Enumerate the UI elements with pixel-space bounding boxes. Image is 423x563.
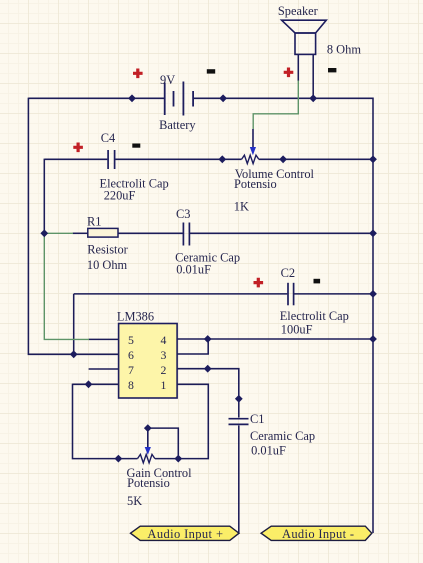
junction pin4 pin3 (204, 335, 212, 343)
svg-text:100uF: 100uF (281, 323, 313, 337)
svg-text:220uF: 220uF (104, 189, 136, 203)
junction volume row right rail (369, 155, 377, 163)
svg-text:3: 3 (161, 348, 167, 362)
wire battery right to corner (194, 97, 373, 99)
svg-text:Potensio: Potensio (127, 476, 170, 490)
polarity plus speaker (284, 68, 294, 78)
svg-text:1K: 1K (234, 200, 249, 214)
polarity plus C2 (254, 278, 264, 288)
wire green R1 feed (44, 232, 73, 234)
wire gain wiper link (148, 428, 179, 459)
svg-text:LM386: LM386 (117, 310, 154, 324)
svg-text:Speaker: Speaker (278, 4, 319, 18)
polarity plus C4 (73, 143, 83, 153)
svg-text:7: 7 (128, 363, 134, 377)
wire C3 right (190, 232, 373, 234)
potentiometer volume 1K zigzag (242, 155, 259, 163)
svg-text:2: 2 (161, 363, 167, 377)
svg-text:Audio Input -: Audio Input - (282, 527, 354, 541)
potentiometer gain 5K zigzag (138, 454, 155, 462)
svg-text:C2: C2 (281, 266, 295, 280)
wire pin8 row (73, 383, 119, 385)
wire pin1 row (155, 384, 208, 458)
junction R1 row right rail (369, 229, 377, 237)
svg-text:Potensio: Potensio (234, 177, 277, 191)
svg-text:Electrolit Cap: Electrolit Cap (280, 309, 349, 323)
polarity minus battery (207, 69, 215, 73)
wire speaker plus stub (297, 54, 299, 81)
svg-text:4: 4 (161, 333, 167, 347)
potentiometer gain wiper (145, 428, 151, 455)
svg-text:Ceramic Cap: Ceramic Cap (250, 429, 315, 443)
svg-text:C4: C4 (101, 131, 115, 145)
wire C4 to volume pot (115, 158, 241, 160)
wire C1 vertical top (238, 399, 240, 418)
svg-text:9V: 9V (160, 73, 175, 87)
svg-text:8: 8 (128, 378, 134, 392)
resistor R1 (88, 228, 118, 237)
wire green speaker plus (253, 81, 298, 130)
wire C4 corner vertical (43, 159, 45, 234)
junction gain pot right (174, 455, 182, 463)
junction pin6 (70, 350, 78, 358)
wire C1 vertical bottom to port (238, 426, 240, 534)
wire pin6 drop from C2 row (73, 294, 75, 354)
wire green pin5 column (44, 233, 89, 340)
svg-text:C3: C3 (176, 207, 190, 221)
wire speaker minus drop (312, 54, 314, 98)
capacitor C1 (229, 419, 249, 425)
port Audio Input + (131, 526, 240, 540)
wire C2 row left (74, 293, 288, 295)
wire pin2 row (177, 369, 239, 399)
wire gain loop left vertical (73, 384, 138, 459)
svg-text:8 Ohm: 8 Ohm (327, 43, 361, 57)
polarity minus C2 (314, 279, 321, 284)
wire C2 right (294, 293, 373, 295)
wire pin7 stub (89, 368, 119, 370)
capacitor C4 (108, 150, 115, 169)
potentiometer volume wiper (250, 129, 256, 155)
svg-text:1: 1 (161, 378, 167, 392)
junction pin8 end (85, 380, 93, 388)
wire right vertical rail (372, 98, 374, 534)
battery BT1 (165, 82, 193, 116)
op-amp U1 LM386 body (119, 324, 178, 399)
svg-text:C1: C1 (250, 412, 264, 426)
wire volume pot right (259, 158, 373, 160)
junction gain wiper corner (144, 424, 152, 432)
wire R1 to C3 (118, 232, 183, 234)
polarity minus speaker (328, 68, 336, 72)
junction volume pot right (279, 155, 287, 163)
svg-text:0.01uF: 0.01uF (176, 263, 211, 277)
junction R1 row left (40, 229, 48, 237)
junction volume pot left (218, 155, 226, 163)
svg-text:5: 5 (128, 333, 134, 347)
junction battery right (219, 94, 227, 102)
svg-text:6: 6 (128, 348, 134, 362)
speaker LS1 (282, 20, 327, 54)
junction speaker minus row (309, 94, 317, 102)
svg-text:10 Ohm: 10 Ohm (87, 258, 128, 272)
wire battery row top (28, 97, 164, 99)
capacitor C3 (183, 223, 189, 246)
junction gain pot left (115, 455, 123, 463)
junction C2 row right rail (369, 290, 377, 298)
wire C4 row (45, 158, 108, 160)
polarity plus battery (133, 69, 143, 79)
wire pin5 stub (89, 338, 119, 340)
wire R1 left stub (73, 232, 88, 234)
junction pin4 row right rail (369, 335, 377, 343)
capacitor C2 (288, 283, 294, 306)
junction C1 top (235, 395, 243, 403)
svg-text:R1: R1 (87, 215, 101, 229)
junction pin2 end (204, 365, 212, 373)
svg-text:Resistor: Resistor (87, 242, 128, 256)
wire pin4 row (177, 338, 373, 340)
svg-text:0.01uF: 0.01uF (251, 444, 286, 458)
port Audio Input - (261, 526, 372, 540)
wire left vertical from battery row to pin6 (28, 98, 118, 355)
svg-text:Audio Input +: Audio Input + (147, 527, 223, 541)
svg-text:Battery: Battery (159, 118, 196, 132)
wire pin3 link (177, 339, 208, 354)
polarity minus C4 (132, 144, 140, 148)
junction battery left (128, 94, 136, 102)
svg-text:5K: 5K (127, 494, 142, 508)
